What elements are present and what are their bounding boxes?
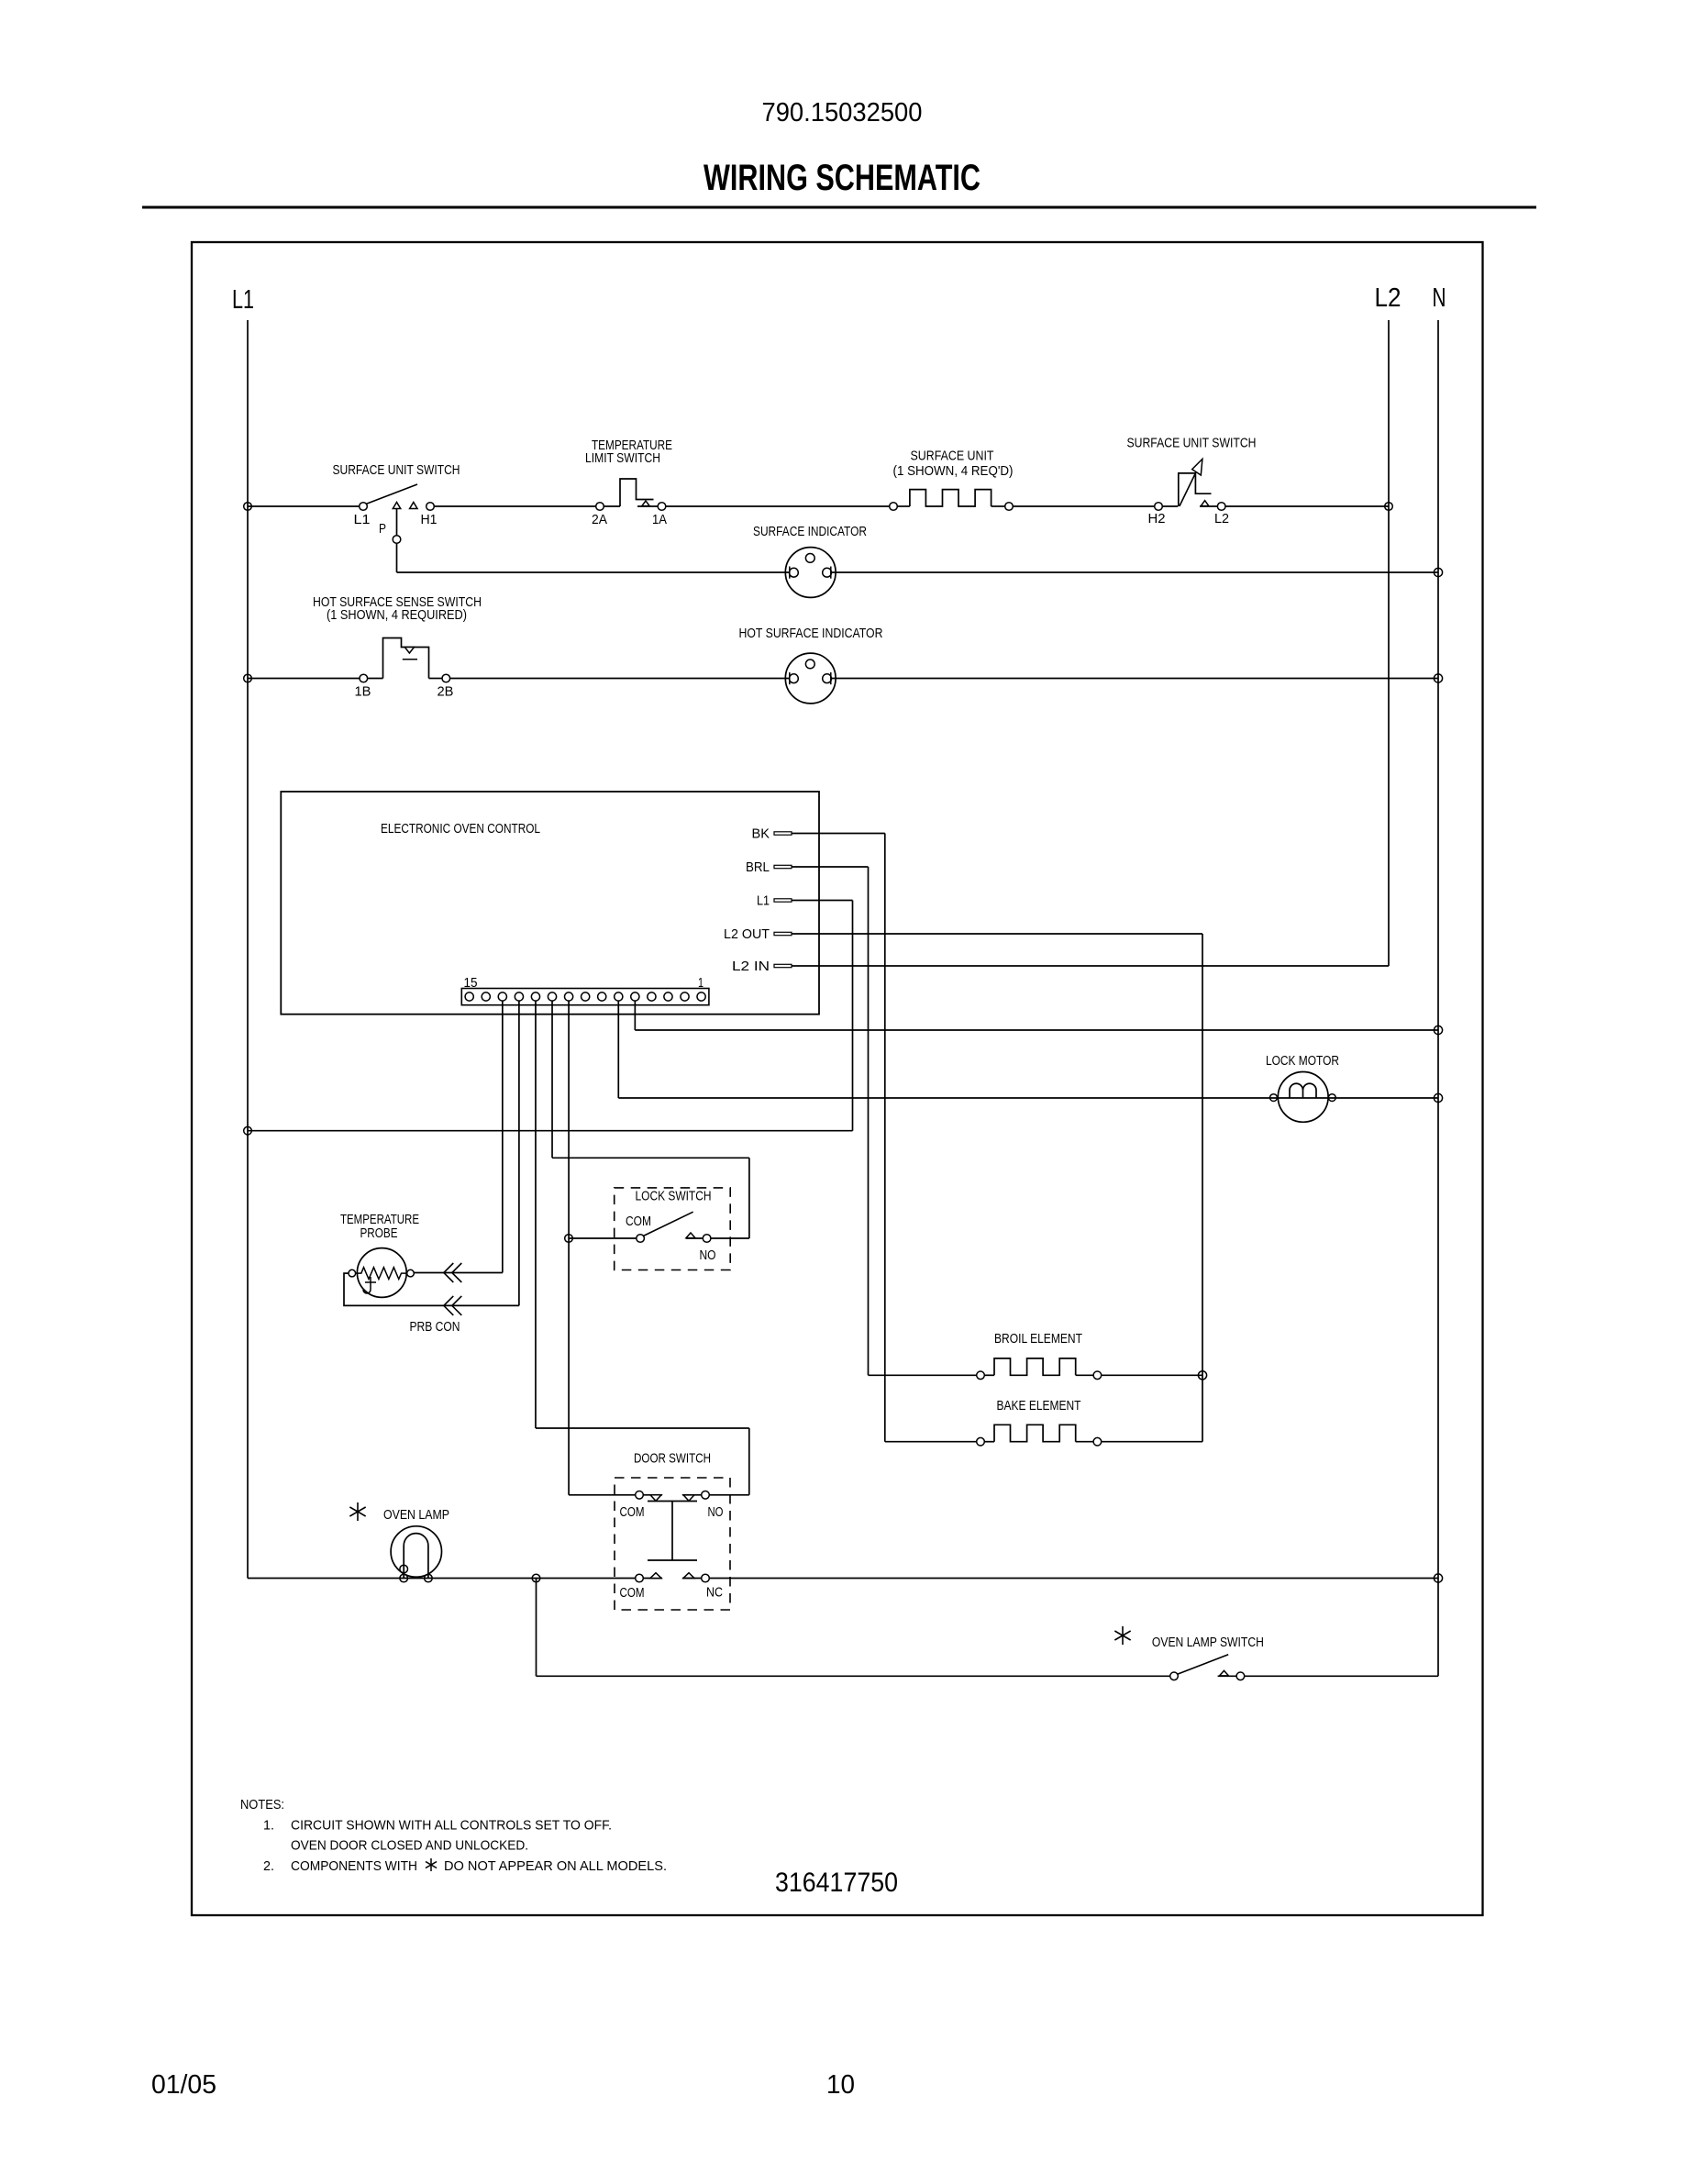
svg-text:COM: COM [620,1585,645,1601]
svg-text:L1: L1 [232,285,254,315]
svg-text:SURFACE UNIT SWITCH: SURFACE UNIT SWITCH [1127,436,1257,451]
svg-text:L2: L2 [1375,283,1401,313]
svg-text:LIMIT SWITCH: LIMIT SWITCH [585,450,660,466]
svg-text:SURFACE INDICATOR: SURFACE INDICATOR [753,524,867,539]
svg-text:1.: 1. [263,1818,274,1834]
svg-text:NO: NO [700,1247,716,1263]
svg-text:COM: COM [626,1214,651,1229]
svg-text:OVEN LAMP SWITCH: OVEN LAMP SWITCH [1152,1635,1264,1650]
svg-text:2B: 2B [438,684,454,700]
svg-text:OVEN LAMP: OVEN LAMP [383,1507,449,1523]
svg-text:L2: L2 [1214,511,1229,527]
svg-text:PROBE: PROBE [360,1225,398,1241]
svg-text:L1: L1 [757,892,770,908]
svg-text:HOT SURFACE INDICATOR: HOT SURFACE INDICATOR [739,626,883,641]
svg-text:(1 SHOWN, 4 REQUIRED): (1 SHOWN, 4 REQUIRED) [327,607,467,623]
svg-text:COMPONENTS WITH: COMPONENTS WITH [291,1858,417,1874]
svg-text:WIRING SCHEMATIC: WIRING SCHEMATIC [704,158,980,198]
svg-text:H2: H2 [1148,511,1166,527]
svg-text:10: 10 [826,2070,855,2100]
svg-text:2.: 2. [263,1858,274,1874]
svg-text:BK: BK [752,826,770,841]
svg-text:P: P [379,521,386,537]
svg-text:BRL: BRL [746,859,770,875]
svg-text:01/05: 01/05 [151,2070,216,2100]
svg-text:L1: L1 [354,512,371,527]
svg-text:(1 SHOWN, 4 REQ'D): (1 SHOWN, 4 REQ'D) [893,463,1014,479]
svg-text:PRB CON: PRB CON [410,1319,460,1335]
svg-text:2A: 2A [592,512,607,527]
svg-text:SURFACE UNIT SWITCH: SURFACE UNIT SWITCH [333,462,460,478]
svg-text:L2 OUT: L2 OUT [724,926,770,942]
svg-text:NC: NC [706,1585,723,1601]
svg-text:DO NOT APPEAR ON ALL MODELS.: DO NOT APPEAR ON ALL MODELS. [444,1858,667,1874]
svg-text:CIRCUIT SHOWN WITH ALL CONTROL: CIRCUIT SHOWN WITH ALL CONTROLS SET TO O… [291,1818,612,1834]
svg-text:15: 15 [464,975,478,991]
svg-text:NOTES:: NOTES: [240,1797,284,1813]
svg-text:316417750: 316417750 [775,1868,898,1898]
svg-text:L2 IN: L2 IN [732,959,770,974]
svg-text:H1: H1 [421,512,438,527]
svg-text:LOCK SWITCH: LOCK SWITCH [636,1188,712,1203]
svg-text:1: 1 [698,975,704,991]
svg-text:COM: COM [620,1504,645,1520]
svg-text:DOOR SWITCH: DOOR SWITCH [634,1451,711,1467]
svg-text:OVEN DOOR CLOSED AND UNLOCKED.: OVEN DOOR CLOSED AND UNLOCKED. [291,1838,528,1854]
svg-text:1B: 1B [355,684,371,700]
svg-text:BROIL ELEMENT: BROIL ELEMENT [994,1331,1082,1347]
svg-text:790.15032500: 790.15032500 [762,98,923,127]
svg-text:LOCK MOTOR: LOCK MOTOR [1266,1053,1339,1069]
svg-text:NO: NO [708,1504,724,1520]
svg-text:ELECTRONIC OVEN CONTROL: ELECTRONIC OVEN CONTROL [381,821,540,837]
svg-text:N: N [1433,283,1446,313]
svg-text:BAKE ELEMENT: BAKE ELEMENT [997,1398,1081,1414]
svg-text:SURFACE UNIT: SURFACE UNIT [911,449,994,464]
svg-text:1A: 1A [652,512,667,527]
